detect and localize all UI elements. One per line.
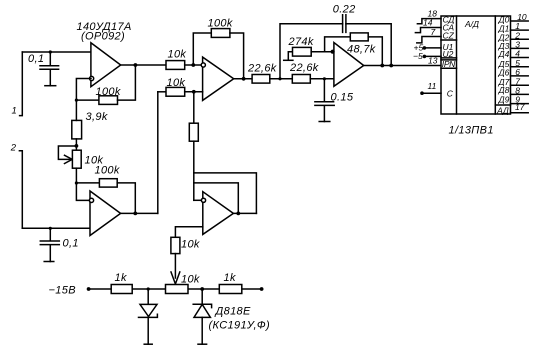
junction U2 output: [242, 77, 246, 81]
svg-text:0,1: 0,1: [28, 53, 44, 65]
svg-text:10k: 10k: [181, 239, 200, 251]
wire R5 bottom long: [193, 141, 195, 200]
svg-text:СZ: СZ: [443, 30, 455, 40]
ground VD1: [144, 343, 152, 345]
svg-text:Д6: Д6: [498, 67, 510, 77]
capacitor C2 0,1: [40, 228, 59, 261]
ground C2: [44, 261, 54, 263]
resistor R7 3,9k: [72, 120, 82, 138]
svg-text:(КС191У,Ф): (КС191У,Ф): [209, 319, 270, 331]
wire pot wiper loop: [58, 146, 76, 159]
svg-text:U2: U2: [443, 49, 454, 59]
svg-text:−15В: −15В: [49, 284, 76, 296]
wire R7 top: [75, 100, 77, 120]
ground C4: [319, 121, 330, 123]
svg-text:10k: 10k: [168, 49, 187, 61]
svg-text:48,7k: 48,7k: [347, 43, 376, 55]
terminal 2: [19, 151, 22, 229]
svg-text:22,6k: 22,6k: [289, 62, 319, 74]
terminal 1: [20, 52, 23, 116]
wire node A up to C3: [280, 24, 343, 79]
wire C3 right down to U5 out: [346, 24, 391, 66]
ADC U6 body: [441, 16, 511, 114]
wire B1 out column up: [157, 92, 159, 214]
zener diode VD1: [139, 289, 158, 344]
terminal rail right dot: [260, 287, 264, 291]
pin U2 -5 wire: [424, 55, 441, 57]
op-amp U2: [203, 57, 234, 100]
op-amp U3: [90, 191, 121, 236]
wire B2 -in: [194, 199, 201, 201]
wire R7 bottom to pot: [75, 139, 77, 150]
resistor R16 48,7k: [350, 33, 368, 41]
wire B1 -in loop: [76, 183, 90, 200]
svg-text:1k: 1k: [115, 272, 127, 284]
svg-text:0.22: 0.22: [333, 3, 356, 15]
terminal -15V dot: [87, 287, 91, 291]
op-amp U2 inverting input circle: [201, 63, 205, 67]
resistor R11 1k: [111, 285, 132, 294]
svg-text:100k: 100k: [208, 17, 233, 29]
junction pot wiper tap: [75, 144, 79, 148]
pin 11 dot: [420, 91, 424, 95]
junction R8 tee: [75, 181, 78, 184]
junction C2 tee: [49, 227, 52, 230]
svg-text:1: 1: [12, 106, 17, 117]
svg-text:3,9k: 3,9k: [86, 111, 108, 123]
resistor R14 22,6k: [292, 75, 310, 84]
op-amp U4 inverting input circle: [201, 198, 205, 202]
wire U4 +in: [175, 227, 202, 238]
wire R3 right down to U2 out: [230, 33, 244, 79]
wiper arrow R10: [171, 272, 180, 284]
svg-text:Д4: Д4: [498, 49, 510, 59]
svg-text:0,1: 0,1: [63, 238, 79, 250]
ADC right divider: [495, 104, 510, 106]
op-amp U3 inverting input circle: [89, 198, 93, 202]
resistor R15 274k: [293, 47, 312, 56]
svg-text:274k: 274k: [288, 36, 314, 48]
capacitor C1 0,1: [40, 52, 59, 86]
svg-text:1/13ПВ1: 1/13ПВ1: [449, 125, 494, 137]
wire R15 right to U5 -in: [311, 51, 334, 53]
pin U2 dot: [423, 55, 427, 59]
wire pot bottom: [75, 168, 77, 183]
zener diode VD2: [193, 289, 211, 344]
junction C4 tee: [323, 77, 326, 80]
svg-text:2: 2: [10, 143, 17, 154]
wiper arrow R6: [65, 155, 73, 163]
resistor R1 100k: [99, 96, 118, 105]
op-amp U1: [91, 43, 121, 87]
wire B2 outer loop: [194, 173, 257, 214]
potentiometer R10 10k: [166, 285, 189, 294]
wire U4 output: [233, 212, 256, 214]
resistor R8 100k: [99, 179, 117, 187]
op-amp U5: [334, 43, 364, 87]
wire R15 left to ground: [288, 52, 292, 61]
wire R8 left: [76, 182, 99, 184]
junction U4 output: [236, 212, 240, 216]
wire column to R4: [158, 91, 166, 93]
wire U1 -in loop: [76, 79, 91, 101]
svg-text:7: 7: [431, 27, 436, 37]
svg-text:10k: 10k: [167, 77, 186, 89]
junction U5 -in: [331, 50, 335, 54]
svg-text:Д8: Д8: [498, 85, 510, 95]
svg-text:C: C: [447, 89, 454, 99]
wire input2 to B1 +in: [22, 227, 90, 229]
wire U3 output: [121, 212, 158, 214]
op-amp U4: [203, 192, 234, 235]
wire R14 right to U5 +in: [310, 78, 334, 80]
wire R2 right to U2 -in: [185, 64, 203, 66]
svg-text:14: 14: [423, 18, 433, 28]
wire U1 out to R2: [121, 64, 166, 66]
resistor R13 22,6k: [252, 75, 270, 84]
pin 7 wire: [417, 37, 441, 43]
junction U1 output: [134, 63, 138, 67]
resistor R5: [189, 123, 198, 141]
svg-text:100k: 100k: [96, 86, 121, 98]
wire U5 out to ADC: [364, 65, 441, 67]
wire R1 right to output: [118, 65, 136, 100]
junction U2 -in tee: [191, 63, 195, 67]
data pin wires D0-D9 AD: [511, 21, 529, 113]
pin 18 wire: [417, 19, 441, 24]
wire R8 right to B1 out: [117, 183, 135, 214]
svg-text:1k: 1k: [224, 272, 236, 284]
wire U5 feedback left vertical: [325, 37, 351, 52]
svg-text:22,6k: 22,6k: [247, 63, 277, 75]
pin 14 wire: [415, 28, 441, 33]
resistor R9 10k: [171, 237, 180, 253]
ADC left dividers: [441, 40, 457, 68]
ADC right column: [494, 16, 496, 114]
junction B1 output: [133, 212, 137, 216]
wire R4 right to U2 +in: [185, 91, 203, 93]
power rail -15V: [89, 288, 262, 290]
svg-text:А/Д: А/Д: [464, 19, 479, 29]
svg-text:17: 17: [515, 102, 525, 112]
resistor R3 100k: [211, 29, 230, 38]
capacitor C4 0.15: [315, 79, 334, 122]
wire R9 down to wiper arrow: [174, 254, 176, 278]
wire R1 left: [76, 99, 99, 101]
wire B2 inner feedback loop: [194, 183, 239, 214]
wire R16 right down to output: [368, 37, 382, 66]
junction R16 output: [380, 64, 384, 68]
junction node A: [278, 77, 281, 80]
svg-text:100k: 100k: [95, 165, 120, 177]
junction R5 tee: [192, 90, 196, 94]
svg-text:IPN: IPN: [442, 59, 456, 69]
svg-text:11: 11: [428, 81, 437, 91]
resistor R4 10k: [166, 87, 185, 96]
ground R15: [284, 59, 293, 61]
resistor R2 10k: [166, 61, 185, 70]
wire U2 feedback left vertical: [193, 33, 211, 65]
svg-text:−5: −5: [413, 51, 423, 61]
wire input1 to op-amp U1 +in: [22, 51, 91, 53]
junction C1 tee: [49, 50, 52, 53]
junction VD2: [200, 287, 204, 291]
wire U2 out to R13: [234, 78, 252, 80]
junction VD1: [147, 287, 150, 290]
wire R13 right to node A: [270, 78, 293, 80]
svg-text:Д818Е: Д818Е: [214, 306, 251, 318]
svg-text:0.15: 0.15: [331, 91, 354, 103]
svg-text:АД: АД: [496, 105, 509, 115]
svg-text:Д9: Д9: [498, 95, 510, 105]
op-amp U1 inverting input circle: [90, 76, 94, 80]
ground VD2: [198, 343, 207, 345]
pin U1 +5 wire: [424, 47, 441, 49]
junction R7 top tee: [75, 99, 78, 102]
ADC left column: [456, 16, 458, 114]
resistor R12 1k: [219, 285, 242, 294]
junction C3 output: [389, 64, 393, 68]
pin 11 wire: [422, 92, 441, 94]
svg-text:13: 13: [428, 56, 438, 66]
ground C1: [45, 85, 56, 87]
pin U1 dot: [423, 46, 427, 50]
wire R5 top: [193, 92, 195, 123]
capacitor C3 0.22: [343, 15, 346, 33]
potentiometer R6 10k: [72, 150, 81, 168]
svg-text:(ОР092): (ОР092): [81, 31, 125, 43]
